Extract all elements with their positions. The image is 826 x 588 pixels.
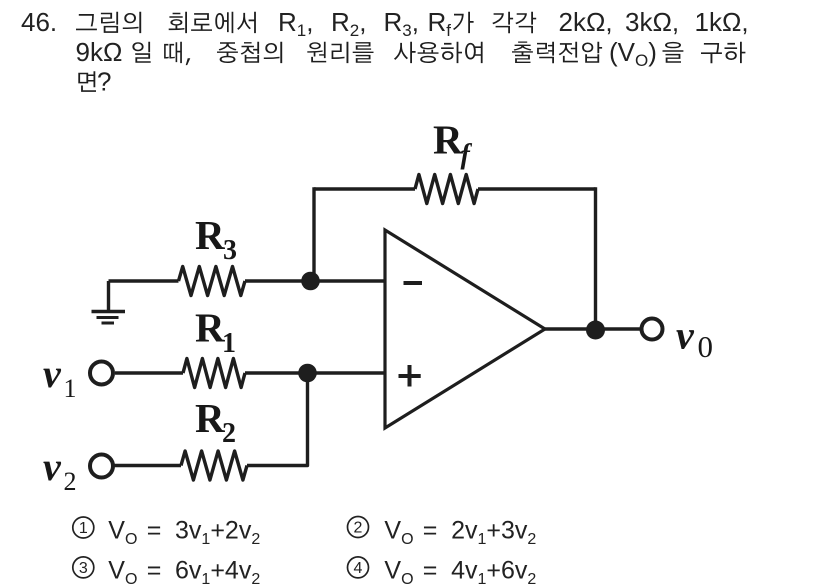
resistor R3 xyxy=(179,267,246,296)
wire: R1 to non-inverting input xyxy=(245,371,385,374)
svg-text:2v1+3v2: 2v1+3v2 xyxy=(451,517,536,549)
wire: R3 to inverting input xyxy=(245,279,385,282)
svg-text:=: = xyxy=(423,517,438,545)
op-amp minus input sign xyxy=(404,281,423,285)
svg-text:VO: VO xyxy=(384,517,413,549)
wire: v2 to R2 xyxy=(115,464,182,467)
answer choice 1 xyxy=(73,517,94,538)
resistor Rf xyxy=(415,175,478,204)
svg-text:v: v xyxy=(676,313,695,358)
svg-text:R1,: R1, xyxy=(278,7,313,40)
svg-text:R2,: R2, xyxy=(331,7,366,40)
question line 1 korean: 그림의 회로에서 xyxy=(76,12,141,33)
answer choice 3 xyxy=(73,557,94,578)
svg-text:6v1+4v2: 6v1+4v2 xyxy=(175,556,260,588)
wire: feedback top xyxy=(314,187,415,190)
wire: R2 up to node B xyxy=(247,373,308,466)
op-amp plus input sign xyxy=(399,365,421,387)
svg-text:3v1+2v2: 3v1+2v2 xyxy=(175,517,260,549)
svg-text:2: 2 xyxy=(222,418,236,449)
question line 3 xyxy=(78,71,96,92)
svg-text:2kΩ,: 2kΩ, xyxy=(559,7,613,37)
node C (output junction) xyxy=(586,321,605,340)
svg-text:f: f xyxy=(461,140,473,171)
svg-text:1kΩ,: 1kΩ, xyxy=(695,7,749,37)
wire: v1 to R1 xyxy=(115,371,183,374)
svg-text:?: ? xyxy=(97,67,111,97)
svg-text:3: 3 xyxy=(223,235,237,266)
svg-text:4v1+6v2: 4v1+6v2 xyxy=(451,556,536,588)
wire: output xyxy=(545,327,640,330)
svg-text:R: R xyxy=(195,212,225,258)
svg-text:VO: VO xyxy=(108,517,137,549)
node B (non-inverting input junction) xyxy=(298,364,317,383)
terminal v1 xyxy=(90,362,113,385)
wire: feedback left vertical xyxy=(312,187,315,281)
svg-text:R: R xyxy=(195,395,225,441)
svg-text:1: 1 xyxy=(79,520,88,537)
svg-text:R: R xyxy=(195,305,225,351)
svg-text:46.: 46. xyxy=(21,7,57,37)
svg-text:Rf: Rf xyxy=(428,7,452,40)
op-amp U1 xyxy=(385,230,545,428)
wire: ground to R3 xyxy=(109,279,179,282)
ground xyxy=(107,281,110,311)
wire: feedback top right xyxy=(478,187,596,190)
svg-text:VO: VO xyxy=(108,556,137,588)
svg-text:v: v xyxy=(43,444,62,489)
terminal v2 xyxy=(90,455,113,478)
svg-text:3: 3 xyxy=(79,560,88,577)
answer choice 4 xyxy=(348,557,369,578)
svg-text:4: 4 xyxy=(354,560,363,577)
svg-text:(VO): (VO) xyxy=(609,37,657,70)
svg-text:R3,: R3, xyxy=(384,7,419,40)
svg-text:1: 1 xyxy=(222,328,236,359)
svg-text:1: 1 xyxy=(64,374,77,403)
resistor R1 xyxy=(183,359,245,388)
resistor R2 xyxy=(181,451,247,480)
svg-text:=: = xyxy=(147,556,162,584)
svg-text:2: 2 xyxy=(64,467,77,496)
svg-text:0: 0 xyxy=(698,329,714,364)
svg-text:VO: VO xyxy=(384,556,413,588)
svg-text:=: = xyxy=(147,517,162,545)
svg-text:=: = xyxy=(423,556,438,584)
node A (inverting input junction) xyxy=(301,272,320,291)
svg-text:2: 2 xyxy=(354,520,363,537)
svg-text:3kΩ,: 3kΩ, xyxy=(625,7,679,37)
svg-text:9kΩ: 9kΩ xyxy=(76,37,123,67)
terminal vO xyxy=(642,319,663,340)
answer choice 2 xyxy=(348,517,369,538)
svg-text:v: v xyxy=(43,351,62,396)
svg-text:R: R xyxy=(433,117,463,163)
wire: feedback right vertical xyxy=(594,187,597,331)
